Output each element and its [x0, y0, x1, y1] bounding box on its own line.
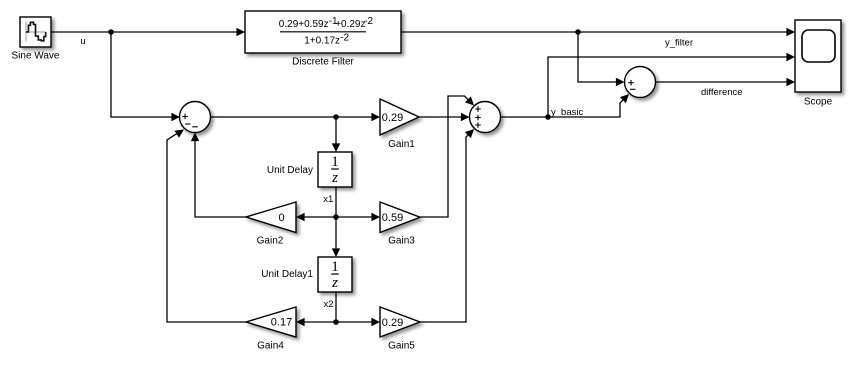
svg-text:0: 0 — [278, 212, 284, 224]
svg-text:x2: x2 — [323, 299, 333, 310]
svg-text:1+0.17z: 1+0.17z — [304, 36, 340, 47]
svg-text:0.59: 0.59 — [382, 212, 403, 224]
svg-text:x1: x1 — [323, 194, 333, 205]
svg-text:0.17: 0.17 — [271, 317, 292, 329]
svg-text:Gain2: Gain2 — [257, 236, 284, 247]
svg-text:Sine Wave: Sine Wave — [12, 51, 60, 62]
svg-text:y_basic: y_basic — [551, 107, 583, 118]
svg-text:1: 1 — [331, 154, 339, 170]
svg-text:Unit Delay1: Unit Delay1 — [261, 269, 313, 280]
svg-text:Gain5: Gain5 — [388, 341, 415, 352]
svg-text:z: z — [331, 275, 338, 291]
svg-text:0.29+0.59z: 0.29+0.59z — [279, 19, 329, 30]
svg-text:0.29: 0.29 — [382, 317, 403, 329]
svg-text:-2: -2 — [364, 16, 373, 27]
svg-text:Scope: Scope — [804, 97, 833, 108]
svg-text:Gain4: Gain4 — [257, 341, 284, 352]
svg-text:difference: difference — [701, 87, 743, 98]
svg-text:Gain1: Gain1 — [388, 139, 415, 150]
svg-text:-2: -2 — [340, 33, 349, 44]
svg-text:Discrete Filter: Discrete Filter — [292, 57, 354, 68]
svg-text:0.29: 0.29 — [382, 112, 403, 124]
svg-text:Gain3: Gain3 — [388, 236, 415, 247]
svg-text:u: u — [80, 36, 85, 47]
svg-text:z: z — [331, 170, 338, 186]
svg-text:Unit Delay: Unit Delay — [267, 165, 313, 176]
svg-text:y_filter: y_filter — [665, 38, 693, 49]
svg-text:1: 1 — [331, 259, 339, 275]
svg-text:+0.29z: +0.29z — [335, 19, 365, 30]
